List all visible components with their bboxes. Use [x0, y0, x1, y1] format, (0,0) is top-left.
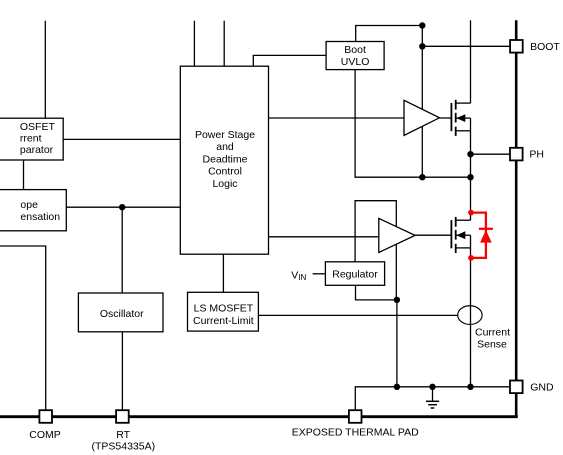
label current sense	[475, 327, 510, 351]
node slope compensation junction	[119, 204, 125, 210]
node PH pin junction	[467, 151, 473, 157]
wire HS MOSFET source column	[470, 118, 472, 220]
pin BOOT terminal	[510, 40, 523, 53]
svg-text:ope: ope	[20, 199, 38, 211]
node PH rail junction right	[467, 174, 473, 180]
wire HS driver bottom rail to PH	[421, 126, 423, 177]
power stage and deadtime control logic box U3	[180, 66, 268, 254]
svg-text:Current: Current	[475, 327, 510, 339]
wire power stage to Boot UVLO	[253, 55, 326, 66]
svg-text:OSFET: OSFET	[20, 121, 56, 133]
svg-text:ensation: ensation	[20, 211, 60, 223]
svg-text:Control: Control	[208, 166, 242, 178]
wire BOOT net to BOOT pin	[422, 26, 510, 47]
node PH rail junction left	[419, 174, 425, 180]
svg-text:RT: RT	[116, 429, 130, 441]
svg-text:Current-Limit: Current-Limit	[193, 315, 254, 327]
svg-text:LS MOSFET: LS MOSFET	[194, 303, 254, 315]
node GND rail junction center	[429, 384, 435, 390]
svg-text:rrent: rrent	[20, 132, 42, 144]
wire LS driver bottom rail to ground	[395, 245, 397, 300]
pin RT terminal	[116, 410, 129, 423]
node GND rail junction left	[394, 384, 400, 390]
LS gate driver A2	[379, 218, 415, 252]
wire slope compensation to power stage	[66, 206, 180, 208]
current sense element CS1	[458, 306, 482, 325]
svg-text:Oscillator: Oscillator	[100, 308, 144, 320]
wire LS driver output to gate	[414, 234, 451, 236]
svg-text:parator: parator	[20, 144, 54, 156]
wire HS driver output to gate	[440, 117, 452, 119]
svg-text:Logic: Logic	[212, 178, 237, 190]
wire node to oscillator	[121, 207, 123, 293]
wire power stage top left	[193, 21, 195, 66]
transistor Q2 low side MOSFET	[451, 217, 470, 253]
wire comparator to slope compensation	[23, 160, 25, 190]
wire BOOT to HS driver top rail	[421, 46, 423, 109]
wire regulator to LS driver top rail	[355, 201, 396, 262]
slope compensation box U2	[0, 190, 66, 231]
oscillator box U5	[78, 293, 163, 332]
label boot UVLO	[341, 44, 370, 68]
wire GND rail	[355, 387, 510, 410]
node GND rail junction right	[467, 384, 473, 390]
node BOOT pin junction	[419, 43, 425, 49]
svg-text:Sense: Sense	[477, 338, 507, 350]
wire power stage to LS current limit	[222, 254, 224, 292]
wire Boot UVLO to PH rail	[355, 70, 470, 178]
label power stage and deadtime control logic	[195, 129, 255, 190]
node regulator ground junction	[394, 297, 400, 303]
label LS MOSFET current limit	[193, 303, 254, 327]
svg-text:Power Stage: Power Stage	[195, 129, 255, 141]
wire ground node to GND rail	[396, 300, 398, 387]
wire regulator bottom to ground node	[356, 285, 397, 300]
svg-text:and: and	[216, 141, 234, 153]
node BOOT top junction	[419, 22, 425, 28]
wire current limit to current sense	[258, 314, 457, 316]
wire LS MOSFET source column	[470, 235, 472, 387]
regulator box U7	[325, 262, 384, 286]
svg-text:Regulator: Regulator	[332, 268, 378, 280]
svg-text:EXPOSED THERMAL PAD: EXPOSED THERMAL PAD	[292, 427, 419, 439]
LS MOSFET current limit box U6	[188, 292, 259, 331]
ground	[426, 387, 439, 408]
svg-text:(TPS54335A): (TPS54335A)	[91, 440, 155, 452]
wire VIN sense to HS current comparator	[44, 21, 46, 119]
wire PH node to PH pin	[471, 153, 511, 155]
wire comparator to power stage	[63, 138, 180, 140]
device outline right border	[515, 20, 518, 417]
device outline bottom border	[0, 415, 518, 418]
boot UVLO box U4	[326, 42, 384, 70]
wire power stage to LS driver input	[269, 236, 379, 238]
svg-text:Deadtime: Deadtime	[203, 153, 248, 165]
svg-text:PH: PH	[529, 148, 544, 160]
wire HS MOSFET drain to VIN	[470, 20, 472, 103]
HS gate driver A1	[404, 100, 440, 135]
svg-text:UVLO: UVLO	[341, 56, 370, 68]
transistor Q1 high side MOSFET	[451, 100, 470, 136]
pin PH terminal	[510, 148, 523, 161]
svg-text:COMP: COMP	[29, 429, 61, 441]
pin GND terminal	[510, 381, 523, 394]
wire COMP net	[0, 246, 46, 410]
svg-text:BOOT: BOOT	[530, 41, 560, 53]
pin COMP terminal	[39, 410, 52, 423]
wire power stage to HS driver input	[269, 117, 405, 119]
pin exposed thermal pad terminal	[349, 410, 362, 423]
wire VIN to regulator	[313, 273, 326, 275]
wire oscillator to RT pin	[121, 332, 123, 410]
HS MOSFET current comparator box U1	[0, 118, 63, 160]
wire power stage top right	[223, 21, 225, 66]
svg-text:GND: GND	[530, 381, 554, 393]
svg-text:Boot: Boot	[344, 44, 366, 56]
wire Boot UVLO to BOOT net	[356, 26, 423, 42]
diode D1 body diode highlighted red	[468, 210, 493, 261]
